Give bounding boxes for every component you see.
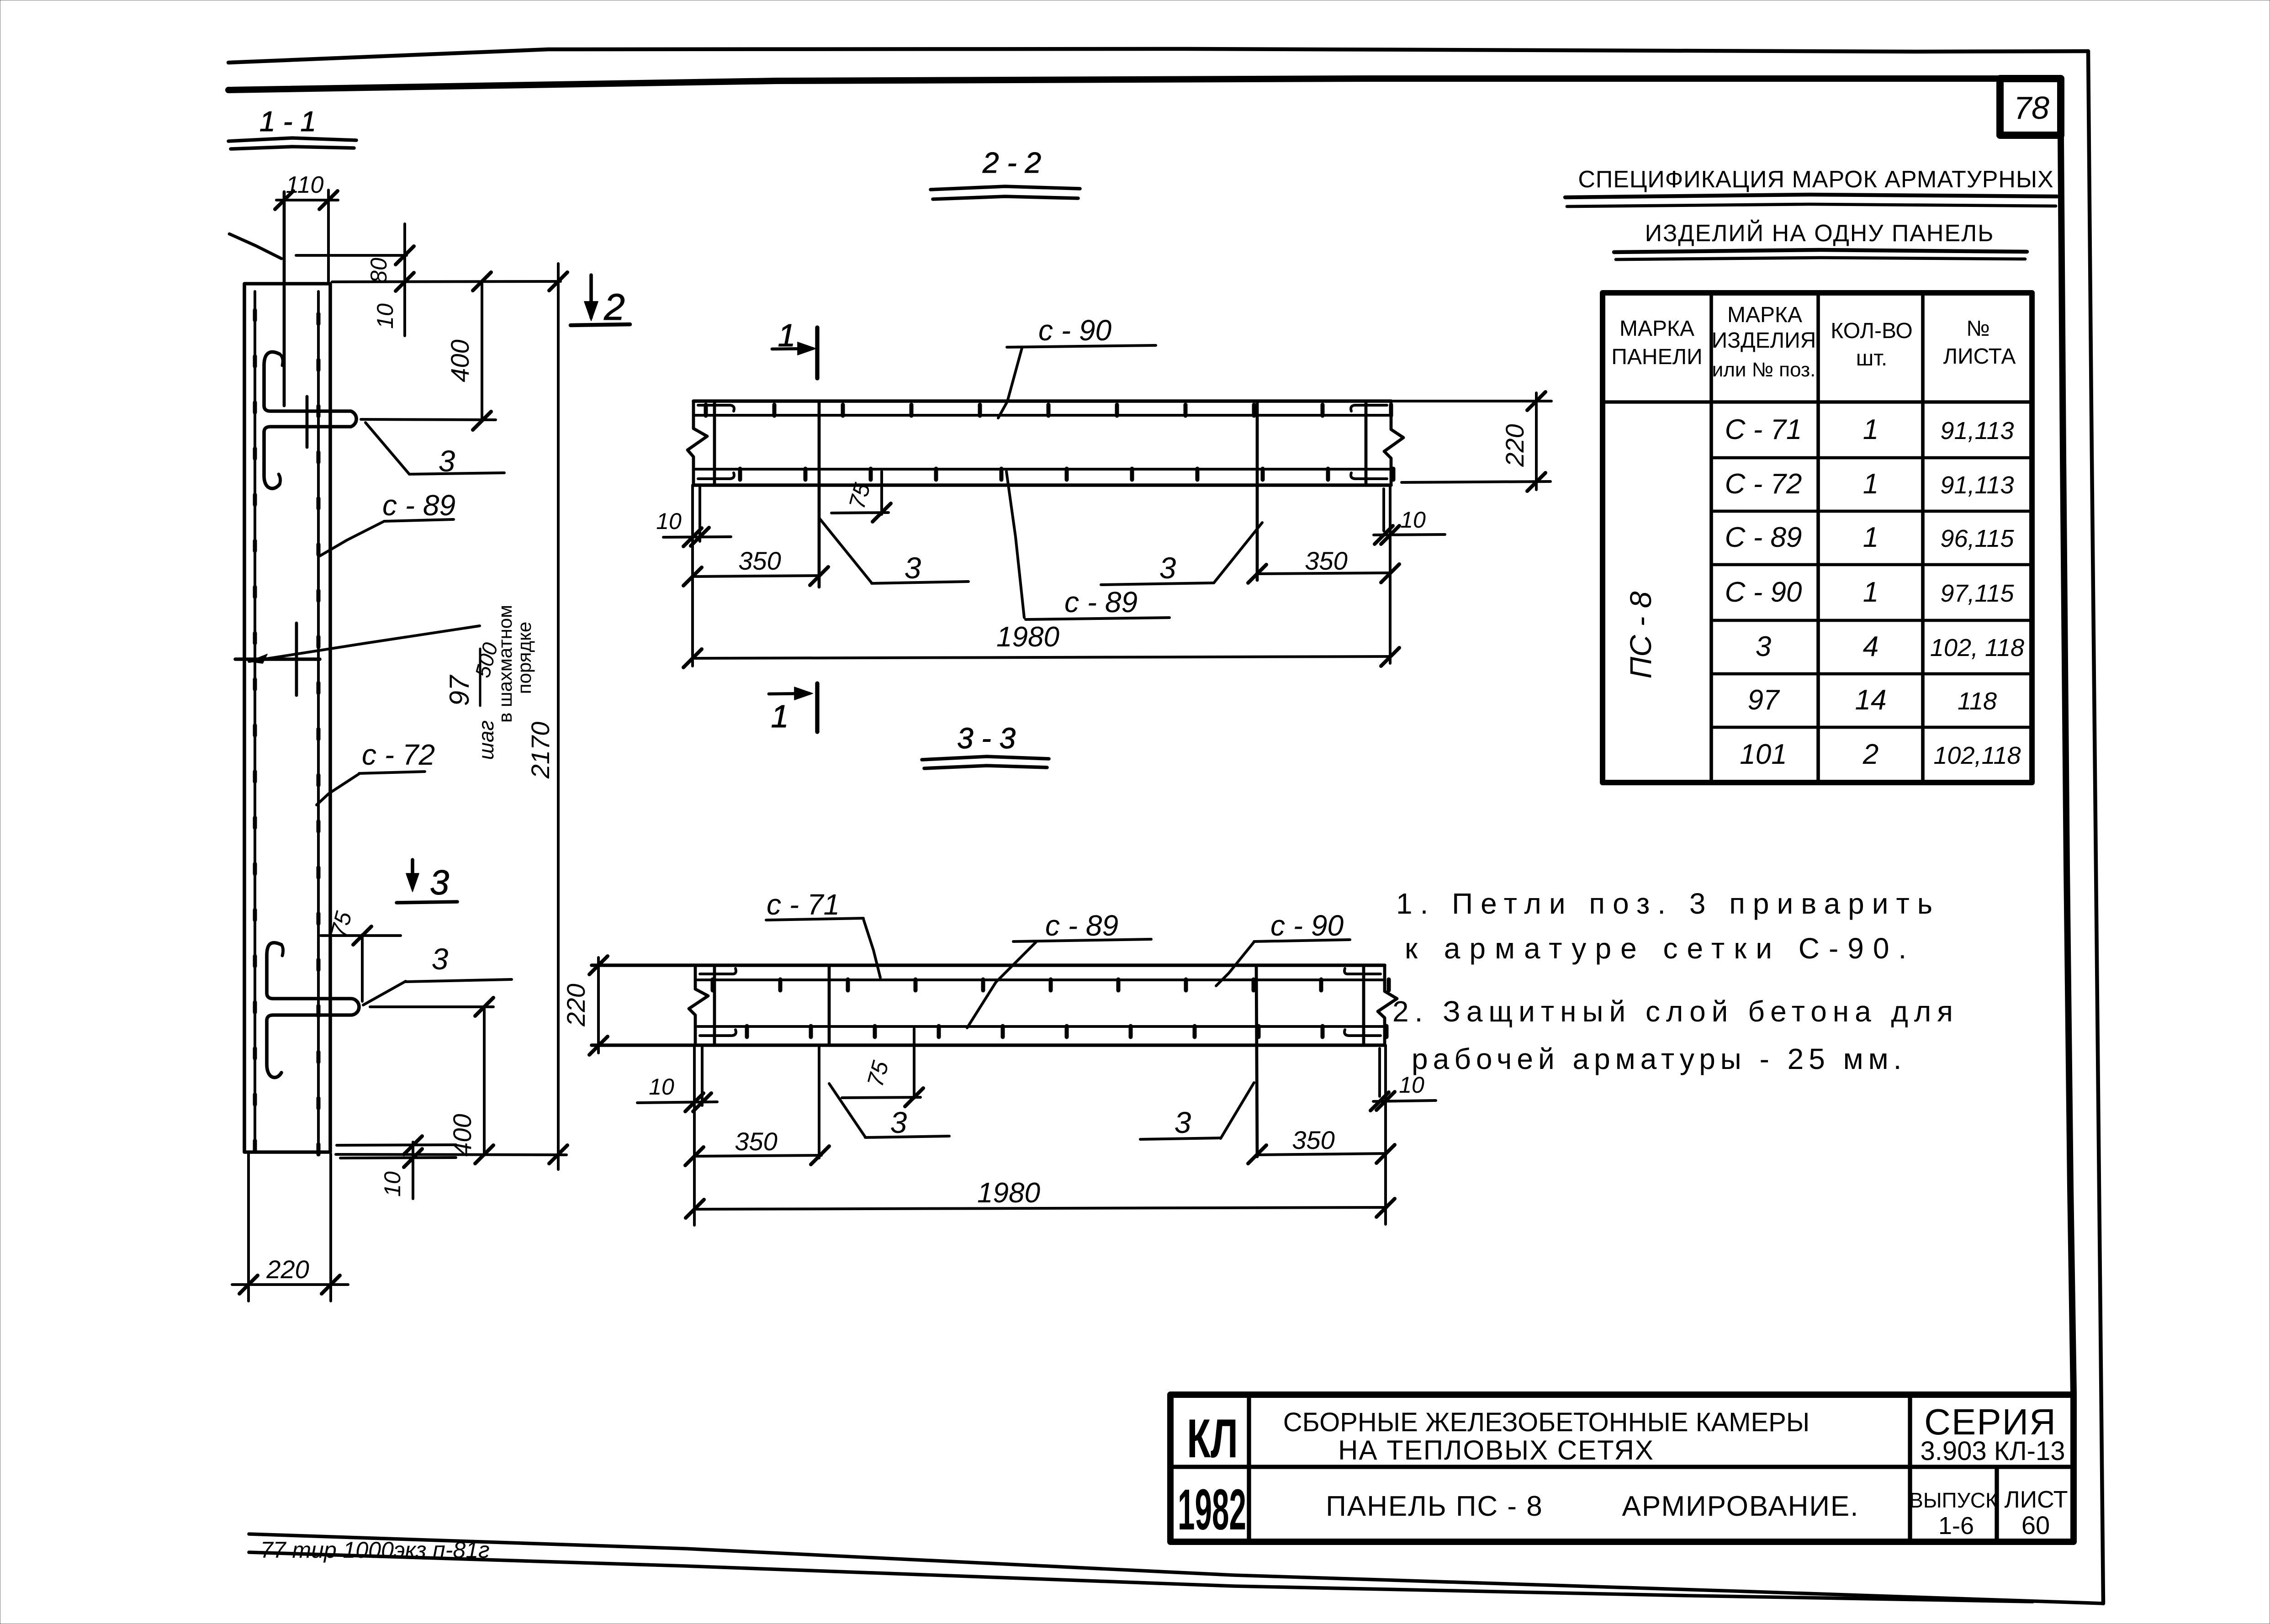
svg-text:с - 90: с - 90 bbox=[1270, 909, 1344, 942]
svg-text:10: 10 bbox=[372, 303, 398, 329]
svg-text:101: 101 bbox=[1740, 739, 1787, 770]
svg-text:№: № bbox=[1966, 317, 1990, 341]
svg-text:2170: 2170 bbox=[526, 722, 555, 779]
svg-text:10: 10 bbox=[1399, 1072, 1424, 1098]
svg-text:1: 1 bbox=[778, 317, 796, 353]
svg-text:с - 89: с - 89 bbox=[382, 489, 455, 522]
svg-text:400: 400 bbox=[448, 1114, 476, 1156]
svg-text:ПАНЕЛЬ ПС - 8: ПАНЕЛЬ ПС - 8 bbox=[1326, 1491, 1543, 1522]
svg-text:220: 220 bbox=[1500, 424, 1529, 467]
svg-text:с - 71: с - 71 bbox=[767, 888, 840, 921]
svg-text:110: 110 bbox=[286, 172, 324, 198]
svg-text:400: 400 bbox=[445, 339, 474, 382]
svg-text:1: 1 bbox=[1863, 522, 1878, 553]
svg-text:118: 118 bbox=[1958, 688, 1997, 715]
svg-text:шт.: шт. bbox=[1856, 346, 1888, 370]
svg-text:рабочей арматуры - 25 мм.: рабочей арматуры - 25 мм. bbox=[1412, 1042, 1906, 1075]
svg-text:3: 3 bbox=[439, 444, 455, 478]
svg-text:97: 97 bbox=[1748, 684, 1780, 716]
svg-text:3: 3 bbox=[905, 551, 921, 585]
svg-text:78: 78 bbox=[2014, 90, 2049, 126]
svg-text:102, 118: 102, 118 bbox=[1930, 634, 2024, 661]
svg-text:77 тир 1000экз п-81г: 77 тир 1000экз п-81г bbox=[260, 1537, 490, 1563]
svg-text:10: 10 bbox=[649, 1074, 674, 1100]
svg-text:14: 14 bbox=[1855, 684, 1887, 716]
svg-text:с - 89: с - 89 bbox=[1064, 586, 1138, 619]
svg-text:С - 89: С - 89 bbox=[1725, 522, 1802, 553]
svg-text:60: 60 bbox=[2021, 1511, 2050, 1539]
svg-text:220: 220 bbox=[266, 1255, 309, 1284]
svg-text:1: 1 bbox=[771, 698, 789, 734]
svg-text:96,115: 96,115 bbox=[1940, 525, 2014, 552]
svg-text:СБОРНЫЕ ЖЕЛЕЗОБЕТОННЫЕ КАМЕР: СБОРНЫЕ ЖЕЛЕЗОБЕТОННЫЕ КАМЕРЫ bbox=[1283, 1407, 1810, 1437]
svg-text:3: 3 bbox=[1175, 1106, 1191, 1139]
svg-text:91,113: 91,113 bbox=[1940, 417, 2014, 444]
svg-text:10: 10 bbox=[380, 1171, 405, 1197]
svg-text:220: 220 bbox=[561, 984, 590, 1026]
svg-text:С - 72: С - 72 bbox=[1725, 468, 1802, 500]
svg-text:1 - 1: 1 - 1 bbox=[259, 106, 316, 138]
svg-text:2: 2 bbox=[603, 286, 625, 328]
svg-text:ИЗДЕЛИЯ: ИЗДЕЛИЯ bbox=[1712, 328, 1816, 353]
svg-text:10: 10 bbox=[656, 508, 682, 534]
svg-text:1: 1 bbox=[1863, 468, 1878, 500]
svg-text:АРМИРОВАНИЕ.: АРМИРОВАНИЕ. bbox=[1622, 1491, 1859, 1522]
svg-text:1-6: 1-6 bbox=[1938, 1512, 1974, 1539]
svg-text:350: 350 bbox=[1305, 546, 1347, 575]
svg-text:или № поз.: или № поз. bbox=[1712, 359, 1816, 381]
svg-text:КОЛ-ВО: КОЛ-ВО bbox=[1831, 319, 1912, 343]
svg-text:шаг: шаг bbox=[474, 720, 498, 760]
svg-text:МАРКА: МАРКА bbox=[1727, 303, 1802, 327]
svg-text:С - 71: С - 71 bbox=[1725, 414, 1802, 445]
svg-text:1982: 1982 bbox=[1178, 1477, 1246, 1542]
svg-text:с - 89: с - 89 bbox=[1045, 909, 1118, 942]
svg-text:ПАНЕЛИ: ПАНЕЛИ bbox=[1611, 345, 1702, 369]
svg-text:с - 90: с - 90 bbox=[1038, 314, 1111, 347]
svg-text:1980: 1980 bbox=[996, 621, 1059, 653]
svg-text:97,115: 97,115 bbox=[1940, 580, 2014, 607]
svg-text:ИЗДЕЛИЙ НА ОДНУ ПАНЕЛЬ: ИЗДЕЛИЙ НА ОДНУ ПАНЕЛЬ bbox=[1645, 220, 1995, 247]
svg-text:3: 3 bbox=[432, 942, 449, 976]
svg-text:102,118: 102,118 bbox=[1933, 742, 2021, 769]
svg-text:НА ТЕПЛОВЫХ СЕТЯХ: НА ТЕПЛОВЫХ СЕТЯХ bbox=[1338, 1435, 1654, 1465]
svg-text:МАРКА: МАРКА bbox=[1619, 317, 1694, 341]
svg-text:3.903 КЛ-13: 3.903 КЛ-13 bbox=[1921, 1436, 2065, 1466]
svg-text:350: 350 bbox=[738, 546, 781, 575]
svg-text:ВЫПУСК: ВЫПУСК bbox=[1909, 1488, 1998, 1512]
svg-text:КЛ: КЛ bbox=[1187, 1408, 1238, 1469]
svg-text:1: 1 bbox=[1863, 577, 1878, 608]
svg-text:к арматуре сетки С-90.: к арматуре сетки С-90. bbox=[1405, 932, 1915, 965]
svg-text:2 - 2: 2 - 2 bbox=[982, 146, 1041, 179]
svg-text:в шахматном: в шахматном bbox=[494, 605, 516, 723]
svg-text:3: 3 bbox=[1756, 631, 1771, 662]
svg-text:3: 3 bbox=[430, 863, 449, 902]
svg-text:3: 3 bbox=[1159, 551, 1176, 585]
svg-text:ЛИСТ: ЛИСТ bbox=[2004, 1486, 2068, 1513]
svg-text:2. Защитный слой бетона: 2. Защитный слой бетона для bbox=[1392, 995, 1959, 1028]
svg-text:2: 2 bbox=[1863, 739, 1878, 770]
svg-text:91,113: 91,113 bbox=[1940, 471, 2014, 499]
svg-text:1980: 1980 bbox=[977, 1177, 1040, 1209]
svg-text:порядке: порядке bbox=[513, 622, 535, 694]
svg-text:4: 4 bbox=[1863, 631, 1878, 662]
svg-text:с - 72: с - 72 bbox=[362, 738, 435, 771]
svg-text:97: 97 bbox=[444, 674, 475, 706]
svg-text:ПС - 8: ПС - 8 bbox=[1624, 591, 1657, 678]
svg-text:СПЕЦИФИКАЦИЯ МАРОК АРМАТУРНЫ: СПЕЦИФИКАЦИЯ МАРОК АРМАТУРНЫХ bbox=[1578, 166, 2053, 193]
svg-text:1. Петли поз. 3 приварить: 1. Петли поз. 3 приварить bbox=[1396, 887, 1940, 920]
svg-text:ЛИСТА: ЛИСТА bbox=[1943, 344, 2016, 369]
svg-text:10: 10 bbox=[1400, 507, 1426, 533]
svg-text:С - 90: С - 90 bbox=[1725, 577, 1802, 608]
svg-text:3 - 3: 3 - 3 bbox=[957, 722, 1016, 755]
svg-text:350: 350 bbox=[735, 1127, 777, 1156]
svg-text:1: 1 bbox=[1863, 414, 1878, 445]
svg-text:350: 350 bbox=[1292, 1126, 1334, 1154]
svg-text:3: 3 bbox=[890, 1106, 907, 1139]
svg-text:80: 80 bbox=[366, 258, 392, 283]
